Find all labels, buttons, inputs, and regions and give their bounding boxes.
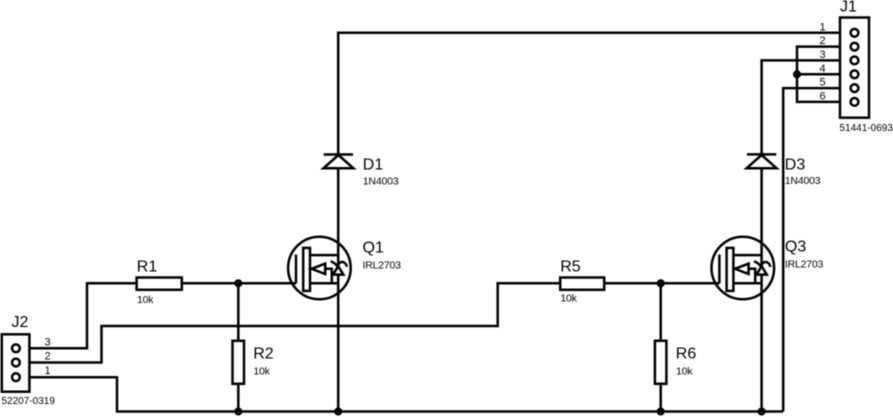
- wire: R6 bottom to rail: [659, 384, 662, 412]
- resistor R1: [137, 278, 182, 290]
- svg-text:R1: R1: [137, 258, 158, 275]
- svg-text:2: 2: [44, 351, 50, 363]
- wire: D1 anode to Q1 drain: [337, 168, 340, 266]
- svg-text:3: 3: [819, 49, 825, 61]
- wire: net J1.1 to D1 cathode (top rail): [338, 33, 840, 155]
- wire: J1.2/4/6 tie: [797, 47, 840, 102]
- svg-text:1: 1: [44, 365, 50, 377]
- transistor Q3: [712, 237, 775, 300]
- svg-text:2: 2: [819, 35, 825, 47]
- svg-text:3: 3: [44, 336, 50, 348]
- wire: bottom rail (J2.1 / R2 / Q1.S / R6 / Q3.S / J1.5): [29, 377, 783, 411]
- junction: Q1 source on rail: [335, 409, 341, 415]
- svg-text:Q1: Q1: [363, 240, 384, 257]
- svg-text:R6: R6: [676, 345, 697, 362]
- wire: J1 pin4 stub: [797, 73, 840, 76]
- svg-text:J2: J2: [12, 314, 29, 331]
- wire: D3 anode to Q3 drain: [760, 168, 763, 266]
- svg-text:1N4003: 1N4003: [785, 175, 821, 187]
- resistor R2: [233, 341, 245, 384]
- svg-text:IRL2703: IRL2703: [363, 259, 402, 271]
- connector J1: [840, 18, 869, 118]
- resistor R5: [560, 278, 604, 290]
- svg-text:R5: R5: [560, 258, 581, 275]
- junction: pin4 on pin2-6 tie: [794, 72, 800, 78]
- junction: R1/R2/Q1-gate: [236, 281, 242, 287]
- wire: gate node 2 down to R6: [659, 283, 662, 341]
- junction: R2 on rail: [236, 409, 242, 415]
- wire: R2 bottom to rail: [237, 384, 240, 412]
- transistor Q1: [288, 237, 351, 300]
- svg-text:1N4003: 1N4003: [363, 176, 399, 188]
- wire: J2.2 long net to R5 left: [29, 283, 560, 362]
- svg-text:D1: D1: [363, 157, 384, 174]
- svg-text:10k: 10k: [560, 292, 577, 304]
- svg-text:10k: 10k: [137, 294, 154, 306]
- wire: J1.3 to D3 cathode: [762, 60, 840, 154]
- diode D1: [323, 155, 353, 169]
- wire: R5 right to gate node 2: [604, 282, 661, 285]
- wire: gate node 2 to Q3 gate: [661, 282, 720, 285]
- diode D3: [747, 154, 777, 168]
- svg-text:J1: J1: [840, 0, 857, 16]
- wire: Q3 source to bottom rail: [760, 275, 763, 412]
- svg-text:R2: R2: [253, 345, 274, 362]
- svg-text:1: 1: [819, 21, 825, 33]
- svg-text:10k: 10k: [253, 366, 270, 378]
- connector J2: [2, 334, 30, 391]
- wire: J1.5 to bottom rail: [783, 88, 840, 411]
- resistor R6: [655, 341, 667, 384]
- svg-text:D3: D3: [785, 157, 806, 174]
- wire: gate node to Q1 gate: [238, 282, 296, 285]
- wire: J2.3 to R1 left: [29, 283, 136, 348]
- svg-text:51441-0693: 51441-0693: [840, 123, 893, 134]
- svg-text:4: 4: [819, 63, 825, 75]
- svg-text:6: 6: [819, 90, 825, 102]
- svg-text:IRL2703: IRL2703: [785, 259, 824, 271]
- junction: R6 on rail: [658, 409, 664, 415]
- svg-text:10k: 10k: [676, 365, 693, 377]
- wire: gate node down to R2: [237, 283, 240, 341]
- svg-text:5: 5: [819, 77, 825, 89]
- svg-text:Q3: Q3: [785, 239, 806, 256]
- junction: R5/R6/Q3-gate: [658, 281, 664, 287]
- svg-text:52207-0319: 52207-0319: [2, 396, 56, 407]
- junction: Q3 source on rail: [759, 409, 765, 415]
- wire: Q1 source to bottom rail: [337, 275, 340, 412]
- wire: R1 right to gate node: [182, 282, 239, 285]
